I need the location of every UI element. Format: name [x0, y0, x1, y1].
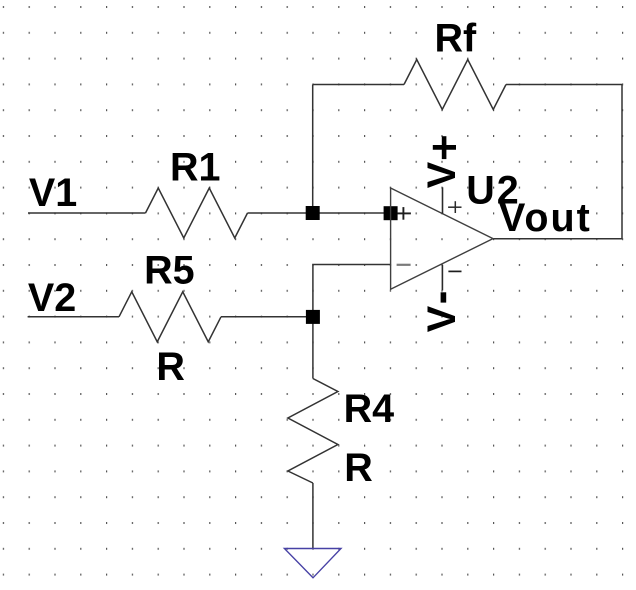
svg-text:Vout: Vout: [499, 196, 592, 240]
resistor R1: [146, 188, 248, 238]
wire opamp output Vout: [493, 238, 622, 240]
wire node2 up and right to opamp - input: [313, 265, 391, 317]
svg-text:R: R: [156, 345, 185, 389]
op-amp input plus marker: [397, 207, 411, 220]
node junction square on V2 line: [306, 310, 320, 324]
op-amp U2 triangle: [391, 188, 493, 289]
svg-text:R4: R4: [344, 387, 395, 431]
wire R4 to ground: [312, 483, 314, 549]
label V- rotated: minus sign: [441, 292, 447, 302]
wire Rf to right corner: [506, 84, 622, 86]
wire top left to Rf: [313, 84, 404, 86]
op-amp bottom power pin: [441, 265, 443, 291]
op-amp input minus marker: [397, 264, 411, 266]
svg-text:R5: R5: [144, 248, 195, 292]
wire V1 to R1: [28, 212, 146, 214]
label V+ rotated: plus sign: [433, 136, 456, 159]
svg-text:V2: V2: [28, 276, 76, 320]
op-amp power plus marker: [448, 201, 461, 213]
op-amp power minus marker: [448, 270, 461, 272]
resistor R5: [119, 292, 221, 342]
wire vertical feedback left: [312, 85, 314, 214]
wire R5 to node2: [221, 316, 313, 318]
svg-text:V: V: [420, 161, 464, 188]
svg-text:V: V: [420, 305, 464, 332]
svg-text:R1: R1: [170, 145, 221, 189]
node junction square on V1 line: [306, 206, 320, 220]
wire R1 to opamp + input: [248, 212, 391, 214]
wire right vertical: [621, 85, 623, 239]
resistor R4 vertical: [288, 379, 338, 484]
ground: [284, 549, 341, 578]
wire node2 down to R4: [312, 317, 314, 379]
wire V2 to R5: [28, 316, 119, 318]
svg-text:R: R: [344, 446, 373, 490]
svg-text:Rf: Rf: [435, 17, 478, 61]
node square at opamp + input: [384, 206, 398, 220]
op-amp top power pin: [442, 187, 444, 213]
svg-text:V1: V1: [29, 171, 77, 215]
resistor Rf: [404, 60, 506, 110]
